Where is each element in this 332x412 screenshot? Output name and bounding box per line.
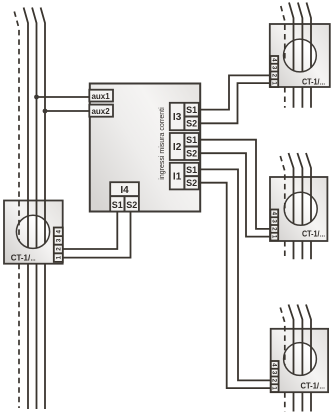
wire: L2 to aux1 <box>37 96 90 98</box>
input I2 (label box) <box>170 133 199 160</box>
svg-text:CT-1/: CT-1/ <box>302 76 320 86</box>
CT1 pin numbers <box>270 58 277 85</box>
wire: I3 S2 to CT1 pin 1 <box>199 83 271 123</box>
svg-text:S2: S2 <box>186 149 197 159</box>
wire: neutral bus (dashed) <box>14 12 19 409</box>
svg-text:1: 1 <box>270 81 277 85</box>
terminal aux2 <box>89 105 113 117</box>
CT2 terminal strip pins 4,3,2,1 <box>270 210 278 241</box>
current transformer CT3 (bottom right, box) <box>271 329 328 392</box>
wire: CT1 neutral (dashed) through <box>281 6 285 108</box>
CT4 terminal strip pins 4,3,2,1 <box>54 228 63 262</box>
wire: phase bus L3 <box>41 8 45 410</box>
CT3 pin numbers <box>271 363 278 390</box>
svg-text:1: 1 <box>271 386 278 390</box>
svg-text:aux1: aux1 <box>91 92 110 101</box>
wire: CT3 phase c <box>306 305 311 412</box>
CT4 pin numbers <box>55 230 62 260</box>
svg-text:S1: S1 <box>112 200 123 210</box>
svg-text:...: ... <box>31 256 36 262</box>
svg-text:3: 3 <box>270 66 277 70</box>
svg-text:aux2: aux2 <box>91 107 110 116</box>
wire: L3 to aux2 <box>45 110 89 112</box>
wire: phase bus L1 <box>24 8 28 410</box>
svg-text:1: 1 <box>55 255 62 259</box>
wire: CT2 phase b <box>297 153 302 259</box>
svg-text:4: 4 <box>271 363 278 367</box>
svg-text:...: ... <box>320 231 326 238</box>
svg-text:I2: I2 <box>173 142 182 153</box>
wire: CT2 phase c <box>306 153 311 259</box>
svg-text:S1: S1 <box>186 105 197 115</box>
svg-text:S1: S1 <box>186 135 197 145</box>
svg-text:CT-1/: CT-1/ <box>301 380 320 390</box>
svg-text:S2: S2 <box>186 178 197 188</box>
wire: CT3 phase b <box>297 305 302 412</box>
svg-text:S2: S2 <box>186 119 197 129</box>
svg-text:I3: I3 <box>173 112 182 123</box>
svg-text:...: ... <box>320 79 326 86</box>
svg-text:1: 1 <box>270 235 277 239</box>
wire: CT1 phase b <box>298 3 303 108</box>
wire: I2 S1 to CT2 pin 2 <box>199 140 271 229</box>
wire: I3 S1 to CT1 pin 2 <box>199 75 271 109</box>
current transformer CT2 (middle right, box) <box>270 177 327 241</box>
wire: I4 S2 to CT4 pin 1 <box>63 212 131 258</box>
svg-text:I4: I4 <box>120 185 129 196</box>
svg-text:2: 2 <box>270 74 277 78</box>
CT2 pin numbers <box>270 212 277 239</box>
wire: CT1 phase a <box>289 3 294 108</box>
svg-text:2: 2 <box>271 379 278 383</box>
wire: CT3 neutral (dashed) through <box>280 308 285 412</box>
current transformer CT1 (top right, box) <box>270 24 330 87</box>
svg-text:4: 4 <box>270 58 277 62</box>
current transformer CT4 (left, box) <box>4 201 63 264</box>
svg-text:S1: S1 <box>186 165 197 175</box>
terminal aux1 <box>89 90 113 102</box>
svg-text:CT-1/: CT-1/ <box>302 228 320 238</box>
svg-text:4: 4 <box>270 212 277 216</box>
svg-text:I1: I1 <box>173 172 182 183</box>
wire: CT2 phase a <box>289 153 294 259</box>
wire: I4 S1 to CT4 pin 2 <box>63 212 118 250</box>
wire: I2 S2 to CT2 pin 1 <box>199 153 271 236</box>
svg-text:2: 2 <box>270 227 277 231</box>
junction on L3 <box>43 109 48 114</box>
input I3 (label box) <box>170 103 199 130</box>
svg-text:ingressi misura correnti: ingressi misura correnti <box>159 107 166 180</box>
svg-text:2: 2 <box>55 247 62 251</box>
wire: I1 S2 to CT3 pin 1 <box>199 183 271 388</box>
svg-text:3: 3 <box>270 219 277 223</box>
svg-text:3: 3 <box>271 371 278 375</box>
svg-text:...: ... <box>320 383 326 390</box>
svg-text:CT-1/: CT-1/ <box>11 253 31 262</box>
wire: phase bus L2 <box>32 8 36 410</box>
input I4 (label box) <box>110 182 139 211</box>
wire: CT2 neutral (dashed) through <box>280 156 285 259</box>
CT3 terminal strip pins 4,3,2,1 <box>271 361 279 392</box>
svg-text:4: 4 <box>55 230 62 234</box>
wire: CT1 phase c <box>307 3 312 108</box>
measuring device U1 (body) <box>90 84 200 212</box>
svg-text:S2: S2 <box>126 200 137 210</box>
wire: I1 S1 to CT3 pin 2 <box>199 169 271 380</box>
CT1 terminal strip pins 4,3,2,1 <box>270 56 278 87</box>
input I1 (label box) <box>170 163 199 190</box>
svg-text:3: 3 <box>55 238 62 242</box>
wire: CT3 phase a <box>289 305 294 412</box>
junction on L2 <box>34 95 39 100</box>
